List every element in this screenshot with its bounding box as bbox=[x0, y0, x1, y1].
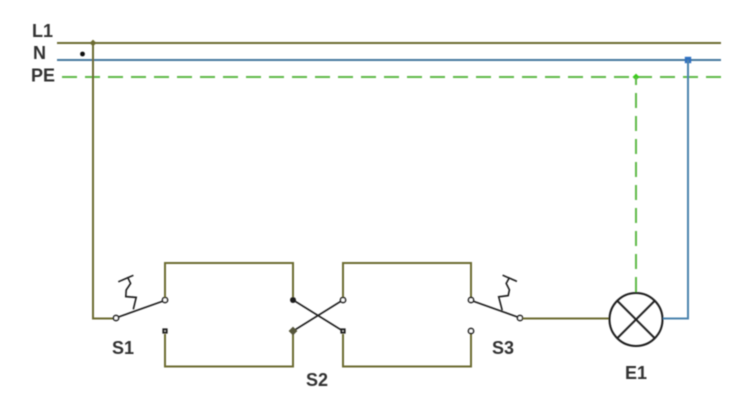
node S2 terminal top-left bbox=[290, 297, 296, 303]
switch S2 crossing bbox=[295, 301, 341, 330]
wire box1 bottom bbox=[165, 334, 293, 367]
node S2 terminal bottom-right bbox=[340, 328, 345, 333]
wire box1 left-top (S1 upper terminal up and across) bbox=[165, 263, 293, 297]
node junction on L1 bbox=[90, 40, 97, 47]
lamp E1 bbox=[610, 293, 663, 346]
node junction on N bbox=[685, 57, 691, 63]
wire L1 rail bbox=[57, 42, 721, 44]
svg-text:N: N bbox=[33, 43, 46, 63]
svg-text:S3: S3 bbox=[492, 338, 514, 358]
wire box2 bottom bbox=[343, 334, 471, 367]
wire PE drop to lamp (dashed) bbox=[635, 77, 637, 292]
svg-text:S2: S2 bbox=[306, 370, 328, 390]
svg-text:L1: L1 bbox=[32, 21, 53, 41]
wire PE rail bbox=[56, 76, 721, 78]
wire S3 to lamp bbox=[523, 318, 609, 320]
node S2 terminal top-right bbox=[340, 297, 345, 302]
node S2 terminal bottom-left bbox=[289, 327, 298, 336]
wire N drop to lamp bbox=[663, 60, 688, 319]
switch S1 bbox=[113, 275, 167, 320]
wire L1 drop to S1 bbox=[93, 43, 113, 319]
switch S3 bbox=[468, 275, 522, 320]
svg-text:E1: E1 bbox=[625, 363, 647, 383]
svg-text:PE: PE bbox=[31, 65, 55, 85]
svg-text:S1: S1 bbox=[112, 338, 134, 358]
node S1 lower terminal bbox=[162, 328, 167, 333]
node junction on PE bbox=[633, 74, 640, 81]
wire N rail bbox=[57, 59, 721, 61]
node stray dot bbox=[80, 52, 85, 57]
wire box2 top bbox=[343, 263, 471, 297]
node S3 lower terminal bbox=[468, 328, 473, 333]
